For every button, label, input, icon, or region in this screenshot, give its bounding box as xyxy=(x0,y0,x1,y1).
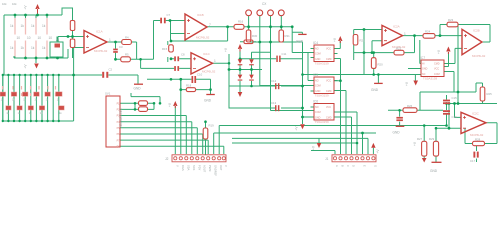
svg-text:IC2A: IC2A xyxy=(393,25,400,29)
svg-text:10k: 10k xyxy=(12,2,17,6)
svg-text:R15: R15 xyxy=(162,47,168,51)
svg-text:SV1: SV1 xyxy=(105,92,111,96)
svg-text:TS5A3159: TS5A3159 xyxy=(423,77,438,81)
svg-text:TS5A3159: TS5A3159 xyxy=(315,120,330,124)
svg-text:C: C xyxy=(346,165,350,167)
svg-text:GND: GND xyxy=(315,90,321,93)
svg-text:10: 10 xyxy=(27,36,31,40)
svg-text:G: G xyxy=(373,165,377,167)
svg-text:AOUT: AOUT xyxy=(203,165,207,173)
svg-text:PWM: PWM xyxy=(208,165,212,171)
svg-text:10: 10 xyxy=(17,36,21,40)
svg-text:R21: R21 xyxy=(360,39,366,43)
svg-text:COM: COM xyxy=(315,85,321,88)
svg-text:GND: GND xyxy=(296,40,304,44)
svg-text:1k: 1k xyxy=(31,46,35,50)
svg-text:J1: J1 xyxy=(325,157,329,161)
svg-text:C3: C3 xyxy=(119,45,123,49)
svg-text:R29: R29 xyxy=(429,137,435,141)
svg-text:C7: C7 xyxy=(167,13,171,17)
svg-text:E: E xyxy=(363,165,367,167)
svg-text:10: 10 xyxy=(49,36,53,40)
svg-text:IC1A: IC1A xyxy=(96,30,103,34)
svg-text:V: V xyxy=(175,165,179,167)
svg-text:R25: R25 xyxy=(487,92,493,96)
svg-text:1k: 1k xyxy=(10,46,14,50)
svg-text:R27: R27 xyxy=(417,137,423,141)
svg-text:IC4: IC4 xyxy=(313,41,318,45)
svg-text:NO: NO xyxy=(315,48,319,51)
svg-text:A: A xyxy=(335,165,339,167)
svg-text:IC1C: IC1C xyxy=(203,52,211,56)
svg-text:HI: HI xyxy=(422,63,425,66)
svg-text:NO: NO xyxy=(315,80,319,83)
svg-text:R26: R26 xyxy=(407,104,413,108)
svg-text:C11: C11 xyxy=(282,52,287,56)
svg-text:MCP6L92: MCP6L92 xyxy=(202,70,216,74)
svg-text:NANOCONN: NANOCONN xyxy=(119,108,123,127)
svg-text:GND: GND xyxy=(371,88,379,92)
svg-text:SCK: SCK xyxy=(192,165,196,171)
svg-text:C16: C16 xyxy=(452,115,458,119)
svg-text:IC2B: IC2B xyxy=(473,29,480,33)
svg-text:COM: COM xyxy=(315,53,321,56)
svg-text:OUT: OUT xyxy=(219,165,223,171)
svg-text:C1: C1 xyxy=(56,39,60,43)
svg-text:MCP6L92: MCP6L92 xyxy=(472,54,486,58)
svg-text:R19: R19 xyxy=(209,124,215,128)
svg-text:GND: GND xyxy=(422,68,428,71)
svg-text:COM: COM xyxy=(315,111,321,114)
svg-text:R5: R5 xyxy=(125,52,129,56)
svg-text:1k: 1k xyxy=(21,46,25,50)
svg-text:GND: GND xyxy=(204,99,212,103)
svg-text:R24: R24 xyxy=(425,30,431,34)
svg-text:C12: C12 xyxy=(271,79,277,83)
svg-text:1k: 1k xyxy=(31,24,35,28)
svg-text:GND: GND xyxy=(393,131,401,135)
svg-text:10: 10 xyxy=(38,36,42,40)
svg-text:IC2C: IC2C xyxy=(472,112,480,116)
svg-text:R31: R31 xyxy=(285,34,291,38)
svg-text:R28: R28 xyxy=(475,137,481,141)
svg-text:C15: C15 xyxy=(452,96,458,100)
svg-text:R22: R22 xyxy=(396,47,402,51)
svg-text:TS5A3159: TS5A3159 xyxy=(315,62,330,66)
svg-text:CMD: CMD xyxy=(326,58,332,61)
svg-text:10k: 10k xyxy=(2,2,7,6)
svg-text:CMD: CMD xyxy=(434,63,440,66)
svg-text:1: 1 xyxy=(109,38,111,42)
svg-text:R4: R4 xyxy=(125,36,129,40)
svg-text:1k: 1k xyxy=(42,46,46,50)
svg-text:DGN: DGN xyxy=(181,165,185,171)
svg-text:VCC: VCC xyxy=(326,48,331,51)
svg-text:R20: R20 xyxy=(378,63,384,67)
svg-text:D: D xyxy=(352,165,356,167)
svg-text:1k: 1k xyxy=(42,24,46,28)
svg-text:NO: NO xyxy=(315,106,319,109)
svg-text:GND: GND xyxy=(315,117,321,120)
svg-text:VCC: VCC xyxy=(434,68,439,71)
svg-text:C8: C8 xyxy=(181,53,185,57)
svg-text:1k: 1k xyxy=(21,24,25,28)
svg-text:R18: R18 xyxy=(186,84,192,88)
svg-text:MCP6L92: MCP6L92 xyxy=(196,36,210,40)
svg-text:C10: C10 xyxy=(197,73,203,77)
svg-text:CMD: CMD xyxy=(326,117,332,120)
svg-text:1: 1 xyxy=(404,32,406,36)
svg-text:C17: C17 xyxy=(470,159,476,163)
svg-text:R16: R16 xyxy=(238,20,244,24)
svg-text:VCC: VCC xyxy=(326,80,331,83)
svg-text:NC: NC xyxy=(422,73,426,76)
svg-text:IC5: IC5 xyxy=(313,73,318,77)
svg-text:1: 1 xyxy=(214,59,216,63)
svg-text:TS5A3159: TS5A3159 xyxy=(315,94,330,98)
svg-text:C2: C2 xyxy=(109,68,113,72)
svg-text:GND: GND xyxy=(134,87,142,91)
svg-text:IC7: IC7 xyxy=(420,56,425,60)
svg-text:VCC: VCC xyxy=(326,106,331,109)
svg-text:R30: R30 xyxy=(252,34,258,38)
svg-text:COM: COM xyxy=(434,73,440,76)
svg-text:C13: C13 xyxy=(271,101,277,105)
svg-text:SDA: SDA xyxy=(186,165,190,171)
svg-text:IC6: IC6 xyxy=(313,100,318,104)
svg-text:1k: 1k xyxy=(10,24,14,28)
svg-text:R23: R23 xyxy=(448,18,454,22)
svg-text:PDY: PDY xyxy=(197,165,201,171)
svg-text:MCP6L92: MCP6L92 xyxy=(94,49,108,53)
svg-text:J2: J2 xyxy=(165,157,169,161)
svg-text:GNDREF: GNDREF xyxy=(214,165,218,176)
svg-text:GND: GND xyxy=(315,58,321,61)
svg-text:B: B xyxy=(341,165,345,167)
svg-text:GND: GND xyxy=(430,169,438,173)
svg-text:7: 7 xyxy=(209,23,211,27)
svg-text:IC1B: IC1B xyxy=(197,13,204,17)
svg-text:CMD: CMD xyxy=(326,90,332,93)
svg-text:V: V xyxy=(224,165,228,167)
